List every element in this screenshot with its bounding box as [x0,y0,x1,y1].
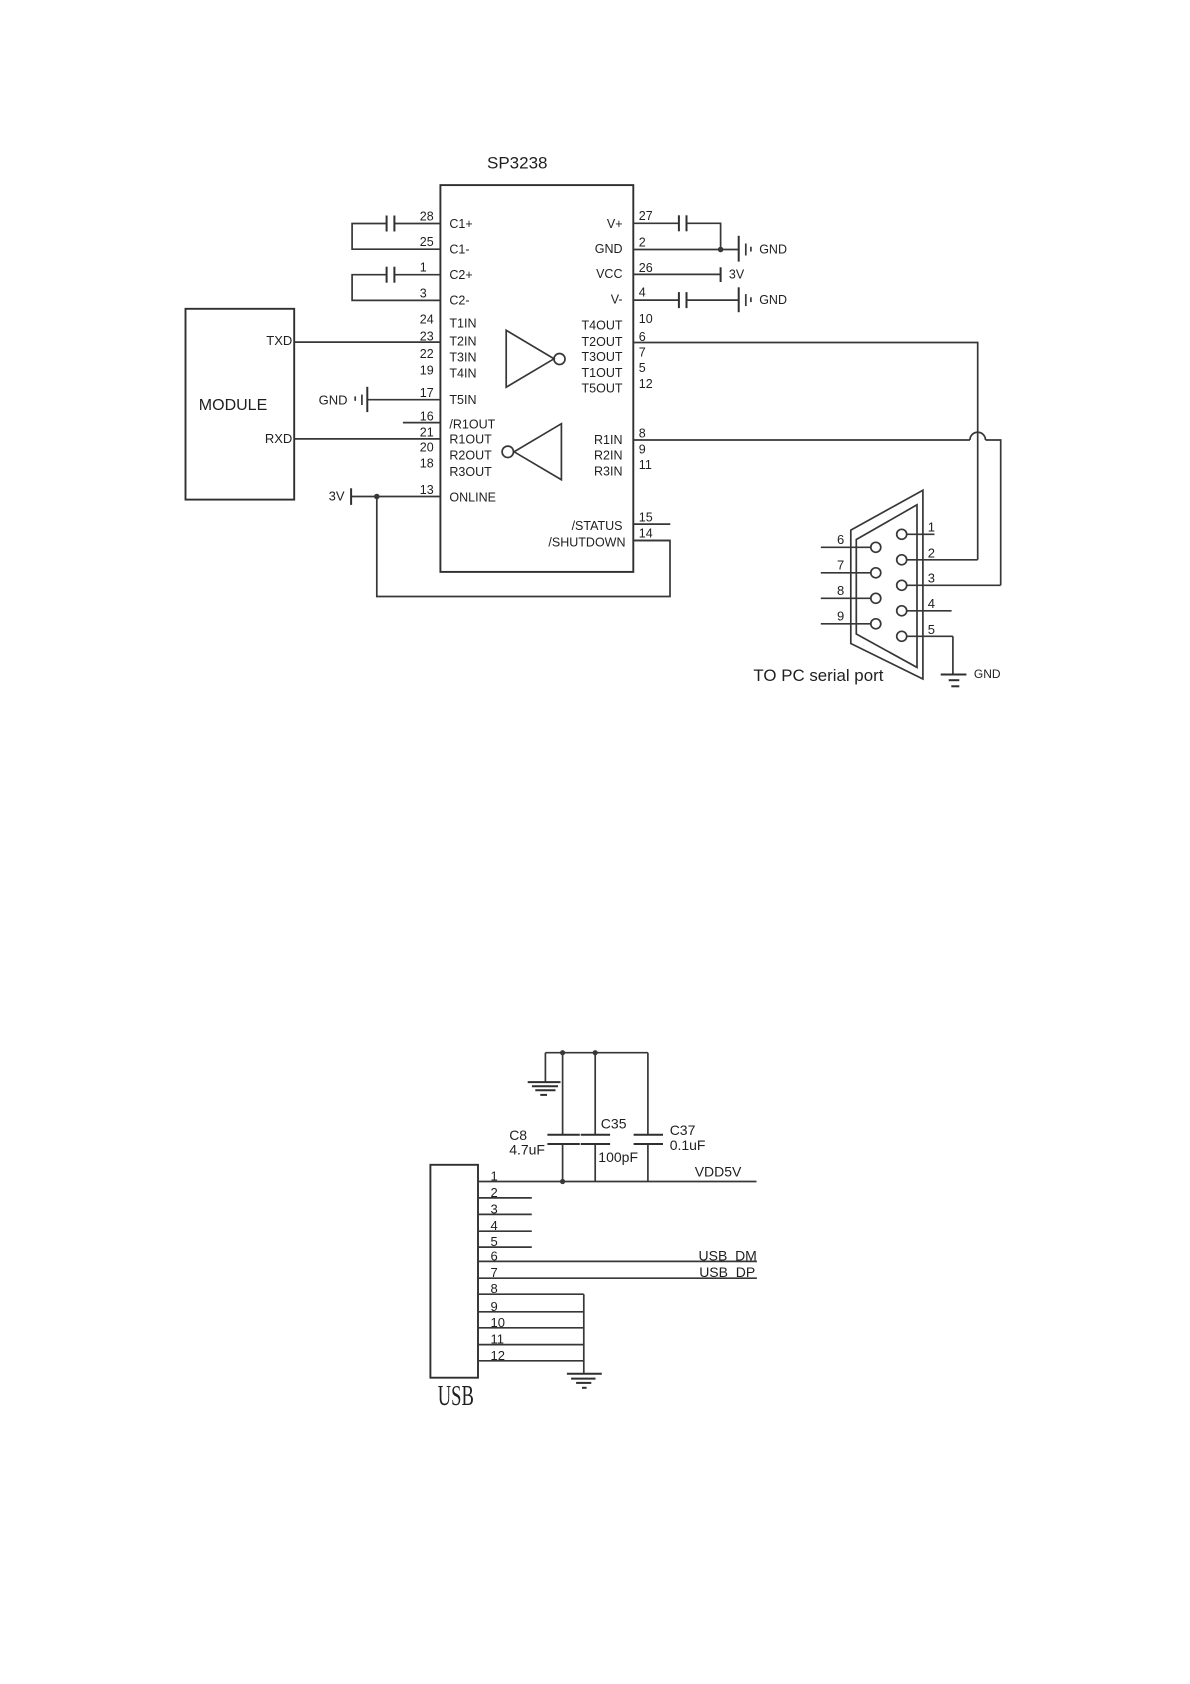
MODULE block [186,309,295,500]
ground power port GND (at T5IN) [319,387,368,412]
wire C1+ to C1- loop [352,224,440,250]
receiver buffer symbol [502,424,561,480]
pin 15 /STATUS [572,510,671,533]
pin 13 ONLINE [351,483,496,505]
svg-text:R1IN: R1IN [594,433,622,447]
svg-text:1: 1 [420,261,427,275]
capacitor C2 (charge pump) [387,267,395,283]
ground power port GND (pin 4) [739,287,787,312]
wire V- cap to GND port [687,299,739,301]
pin 28 C1+ [394,209,472,231]
label USB [438,1380,474,1412]
svg-text:C37: C37 [670,1122,696,1138]
svg-text:11: 11 [639,458,652,472]
capacitor C37 0.1uF [634,1053,706,1182]
pin 20 R2OUT [420,441,492,463]
svg-text:12: 12 [639,377,653,391]
wire RXD net MODULE to pin 21 [294,438,440,440]
svg-text:T1IN: T1IN [449,316,476,330]
ground power port GND (pin 2) [739,236,787,262]
earth ground symbol (DB9 pin 5) [941,667,1001,686]
svg-text:9: 9 [491,1299,498,1314]
USB pin 11 [478,1332,584,1347]
svg-text:25: 25 [420,235,434,249]
connector J1 DB9 outer shell [851,490,923,679]
svg-text:15: 15 [639,510,653,524]
svg-text:12: 12 [491,1348,505,1363]
DB9 pin 3 [897,571,1001,591]
DB9 pin 8 [821,583,881,604]
svg-text:10: 10 [639,312,653,326]
svg-text:8: 8 [837,583,844,598]
pin 22 T3IN [420,347,477,364]
svg-text:3: 3 [928,571,935,586]
pin 7 T3OUT [582,345,646,364]
label U1 value SP3238 [487,154,548,173]
USB pin 8 [478,1281,584,1296]
svg-text:22: 22 [420,347,434,361]
USB pin 4 [478,1218,532,1233]
svg-text:5: 5 [639,361,646,375]
svg-text:VDD5V: VDD5V [695,1164,742,1180]
svg-text:0.1uF: 0.1uF [670,1137,706,1153]
USB pin 9 [478,1299,584,1314]
svg-text:20: 20 [420,441,434,455]
earth ground symbol (cap rail) [528,1082,561,1095]
pin 4 V- [611,286,679,307]
junction V+ cap / GND wire [718,247,724,253]
svg-text:T3OUT: T3OUT [582,350,623,364]
svg-text:T5OUT: T5OUT [582,382,623,396]
pin 6 T2OUT [582,330,646,349]
DB9 pin 1 [897,520,935,540]
wire V+ cap to GND node [687,223,721,249]
pin 3 C2- [420,286,470,307]
svg-text:2: 2 [639,236,646,250]
wire ground rail (top) [545,1053,648,1082]
svg-text:T2OUT: T2OUT [582,335,623,349]
svg-text:28: 28 [420,209,434,223]
svg-text:GND: GND [759,293,787,307]
IC U1 SP3238 body [440,185,633,572]
svg-text:C2-: C2- [449,294,469,308]
wire C2+ to C2- loop [352,275,440,301]
pin 2 GND [595,236,738,256]
svg-text:19: 19 [420,364,434,378]
capacitor C35 100pF [581,1053,638,1182]
capacitor at V+ [679,215,687,231]
svg-text:3: 3 [491,1201,498,1216]
pin 9 R2IN [594,442,646,462]
DB9 pin 4 [897,596,952,616]
svg-text:26: 26 [639,261,653,275]
USB pin 12 [478,1348,584,1363]
svg-text:1: 1 [491,1169,498,1184]
power port 3V (at ONLINE) [329,488,352,505]
svg-text:ONLINE: ONLINE [449,490,496,504]
DB9 pin 2 [897,545,978,564]
svg-text:3V: 3V [329,489,345,504]
svg-text:3V: 3V [729,268,745,282]
svg-text:23: 23 [420,329,434,343]
svg-text:C2+: C2+ [449,268,472,282]
pin 11 R3IN [594,458,652,479]
svg-text:4: 4 [491,1218,498,1233]
pin 18 R3OUT [420,457,492,479]
pin 21 R1OUT [420,425,492,446]
svg-text:T4IN: T4IN [449,366,476,380]
svg-text:1: 1 [928,520,935,535]
svg-text:9: 9 [837,608,844,623]
svg-text:/STATUS: /STATUS [572,519,623,533]
svg-text:/SHUTDOWN: /SHUTDOWN [548,536,625,550]
pin 8 R1IN [594,427,646,448]
svg-text:T4OUT: T4OUT [582,319,623,333]
svg-text:4: 4 [928,596,935,611]
svg-text:5: 5 [491,1234,498,1249]
svg-text:100pF: 100pF [598,1149,638,1165]
pin 23 T2IN [420,329,477,348]
svg-text:TO PC serial port: TO PC serial port [753,666,883,685]
svg-text:USB DP: USB DP [699,1264,755,1280]
wire T2OUT net to DB9 pin 2 [633,343,977,560]
svg-text:21: 21 [420,425,434,439]
DB9 pin 9 [821,608,881,629]
svg-text:GND: GND [595,242,623,256]
svg-text:24: 24 [420,312,434,326]
svg-text:MODULE: MODULE [199,397,267,414]
pin 14 /SHUTDOWN [548,526,670,549]
svg-text:13: 13 [420,483,434,497]
svg-text:V+: V+ [607,217,623,231]
svg-text:C35: C35 [601,1115,627,1131]
svg-text:T5IN: T5IN [449,393,476,407]
svg-text:R2IN: R2IN [594,449,622,463]
svg-text:R1OUT: R1OUT [449,433,492,447]
svg-text:USB: USB [438,1380,474,1412]
svg-text:SP3238: SP3238 [487,154,548,173]
pin 10 T4OUT [582,312,653,333]
junction ONLINE net [374,494,380,500]
svg-text:T2IN: T2IN [449,335,476,349]
wire TXD net MODULE to pin 23 [294,341,440,343]
USB pin 2 [478,1185,532,1200]
svg-text:/R1OUT: /R1OUT [449,418,495,432]
svg-text:27: 27 [639,209,653,223]
svg-text:R3IN: R3IN [594,465,622,479]
svg-text:6: 6 [491,1248,498,1263]
svg-text:14: 14 [639,526,653,540]
svg-text:GND: GND [759,242,787,256]
svg-text:8: 8 [491,1281,498,1296]
pin 5 T1OUT [582,361,646,380]
capacitor C1 (charge pump) [387,216,395,232]
svg-text:11: 11 [491,1332,505,1347]
svg-text:VCC: VCC [596,267,622,281]
pin 27 V+ [607,209,679,231]
svg-text:5: 5 [928,622,935,637]
svg-text:7: 7 [491,1265,498,1280]
svg-text:4: 4 [639,286,646,300]
svg-text:6: 6 [837,532,844,547]
USB pin 3 [478,1201,532,1216]
svg-text:4.7uF: 4.7uF [509,1141,545,1157]
svg-text:7: 7 [639,345,646,359]
svg-text:16: 16 [420,410,434,424]
svg-text:9: 9 [639,442,646,456]
connector J2 USB body [430,1165,478,1378]
wire R1IN net with hop to DB9 pin 3 [633,432,1000,585]
pin 1 C2+ [394,261,472,282]
power port 3V (at VCC) [721,267,745,282]
USB pin 6 USB_DM net [478,1248,757,1264]
svg-text:R2OUT: R2OUT [449,449,492,463]
svg-text:GND: GND [974,667,1001,681]
svg-text:R3OUT: R3OUT [449,465,492,479]
svg-text:10: 10 [491,1315,505,1330]
DB9 pin 7 [821,557,881,578]
USB pin 5 [478,1234,532,1249]
svg-text:3: 3 [420,286,427,300]
svg-text:7: 7 [837,557,844,572]
junction rail / C8 [560,1050,565,1055]
junction rail / C35 [593,1050,598,1055]
pin 16 /R1OUT [403,410,496,432]
wire DB9 pin 5 to ground [952,636,954,674]
transmitter buffer symbol [506,330,565,387]
svg-text:2: 2 [928,545,935,560]
wire USB ground gather [583,1294,585,1374]
pin 19 T4IN [420,364,477,381]
label TO PC serial port [753,666,883,685]
svg-text:RXD: RXD [265,431,292,446]
DB9 pin 6 [821,532,881,553]
svg-text:USB DM: USB DM [699,1248,757,1264]
USB pin 10 [478,1315,584,1330]
wire ONLINE to /SHUTDOWN routing [377,497,670,597]
svg-text:T1OUT: T1OUT [582,366,623,380]
capacitor at V- [679,292,687,308]
svg-text:TXD: TXD [266,333,292,348]
svg-text:T3IN: T3IN [449,350,476,364]
pin 25 C1- [420,235,470,256]
capacitor C8 4.7uF [509,1053,580,1182]
junction C8 / VDD5V net [560,1179,565,1184]
pin 26 VCC [596,261,721,281]
svg-text:17: 17 [420,386,434,400]
svg-text:8: 8 [639,427,646,441]
pin 24 T1IN [420,312,477,330]
svg-text:GND: GND [319,392,348,407]
DB9 pin 5 [897,622,953,642]
earth ground symbol (USB shield) [567,1374,602,1388]
svg-text:C1-: C1- [449,242,469,256]
svg-text:C1+: C1+ [449,217,472,231]
pin 17 T5IN [367,386,476,407]
USB pin 1 VDD5V net [478,1164,757,1184]
USB pin 7 USB_DP net [478,1264,757,1280]
pin 12 T5OUT [582,377,653,396]
svg-text:18: 18 [420,457,434,471]
svg-text:2: 2 [491,1185,498,1200]
svg-text:V-: V- [611,293,623,307]
connector J1 DB9 inner shell [856,505,917,668]
